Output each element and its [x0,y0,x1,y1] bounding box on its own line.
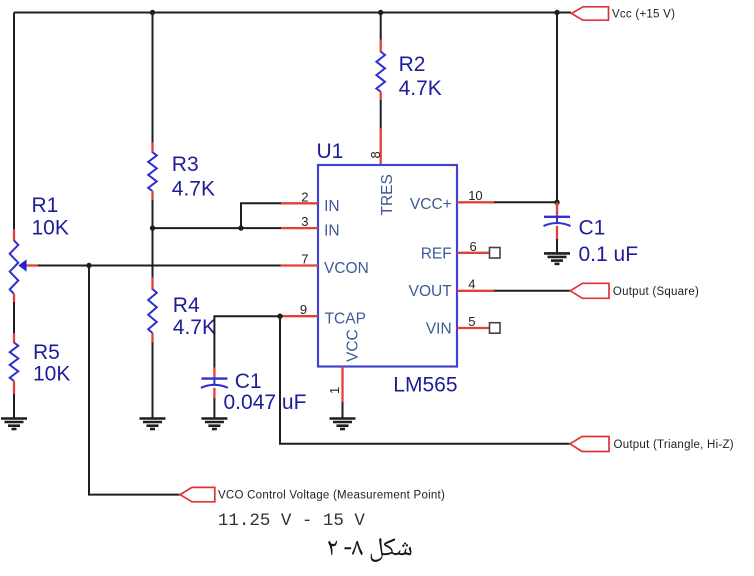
svg-text:10K: 10K [33,363,70,386]
ground (R4) [140,419,166,430]
svg-text:6: 6 [470,239,477,254]
svg-text:4.7K: 4.7K [399,77,442,100]
wire R3 branch from top [152,13,154,144]
no-connect square pin 6 [490,248,501,259]
pin number 3 [301,214,308,229]
label R1 10K [32,194,69,239]
pin 2 wire [241,203,318,228]
caption (Farsi) shekl 8-2 [328,538,411,562]
wire R2 to pin 8 [380,100,382,129]
wire right vertical [556,13,558,203]
ground (R5) [1,419,27,430]
pin 6 REF stub [457,252,491,254]
pin number 5 [468,314,475,329]
svg-text:LM565: LM565 [393,373,457,396]
svg-text:TRES: TRES [379,174,396,215]
svg-text:5: 5 [468,314,475,329]
resistor R1 (potentiometer) [10,229,39,303]
ground (C2) [201,419,227,430]
IC U1 LM565 [317,140,458,396]
capacitor C1 0.1uF [544,202,571,253]
svg-text:VCON: VCON [324,260,369,277]
node VCO Control Voltage flag [180,487,445,501]
label R2 4.7K [399,53,442,100]
pin number 7 [301,252,308,267]
pin 4 VOUT wire [457,290,570,292]
node Output (Square) flag [570,283,699,298]
pin number 8 [368,151,383,158]
pin number 2 [301,189,308,204]
label R3 4.7K [172,153,215,201]
label C1 0.047 uF [224,370,307,414]
wire R4 to ground [152,343,154,419]
wire left branch upper [13,13,15,232]
svg-text:2: 2 [301,189,308,204]
svg-text:11.25 V - 15 V: 11.25 V - 15 V [218,511,366,531]
svg-text:10: 10 [468,188,482,203]
pin number 4 [468,277,475,292]
wire R3 to junction [152,200,154,228]
svg-text:U1: U1 [317,140,344,163]
wire R5 to ground [13,394,15,419]
label R5 10K [33,341,70,386]
svg-text:Output (Square): Output (Square) [613,286,699,298]
svg-text:R3: R3 [172,153,199,176]
pin 7 VCON wire [38,265,318,267]
svg-text:IN: IN [324,198,340,215]
svg-text:TCAP: TCAP [325,311,366,328]
svg-text:Output (Triangle, Hi-Z): Output (Triangle, Hi-Z) [614,439,734,451]
pin number 1 [327,387,342,394]
svg-text:R5: R5 [33,341,60,364]
svg-text:R2: R2 [399,53,426,76]
svg-text:0.047 uF: 0.047 uF [224,391,307,414]
label C1 0.1 uF [579,217,639,267]
no-connect square pin 5 [490,323,501,334]
wire between R1 and R5 [13,302,15,334]
pin number 9 [300,302,307,317]
resistor R2 [376,39,385,101]
pin 3 wire [153,227,319,229]
wire R2 branch from top [380,13,382,41]
svg-text:4: 4 [468,277,475,292]
resistor R5 [10,333,19,395]
pin number 10 [468,188,482,203]
svg-text:VCC+: VCC+ [410,196,452,213]
svg-text:IN: IN [324,223,340,240]
svg-text:R4: R4 [173,294,200,317]
svg-text:1: 1 [327,387,342,394]
junction TCAP / triangle out [277,314,282,319]
junction R3/IN3 [150,225,155,230]
svg-text:4.7K: 4.7K [172,178,215,201]
junction top right [554,10,559,15]
wire R3/R4 vertical through VCON [152,228,154,278]
junction pin2/pin3 [238,225,243,230]
svg-text:VOUT: VOUT [409,283,453,300]
svg-text:VCC: VCC [345,329,362,362]
junction top-left (R3 branch) [150,10,155,15]
svg-text:0.1 uF: 0.1 uF [579,243,639,266]
pin 8 stub [380,128,382,165]
node Output (Triangle, Hi-Z) flag [570,437,734,452]
pin number 6 [470,239,477,254]
svg-text:4.7K: 4.7K [173,316,216,339]
svg-text:C1: C1 [579,217,606,240]
svg-text:REF: REF [421,245,452,262]
junction VCON / VCO control [86,263,91,268]
pin 1 VCC stub [341,367,343,419]
ground (C1) [544,253,570,264]
ground (pin 1) [330,419,356,430]
wire VCO control [89,266,180,495]
pin 5 VIN stub [457,327,491,329]
svg-text:7: 7 [301,252,308,267]
junction pin10 / C1 [554,200,559,205]
capacitor C1 0.047uF [201,367,228,418]
svg-text:3: 3 [301,214,308,229]
wire triangle output [280,316,570,444]
svg-text:VCO Control Voltage (Measureme: VCO Control Voltage (Measurement Point) [218,490,445,502]
svg-text:R1: R1 [32,194,59,217]
wire top rail [14,12,571,14]
resistor R4 [148,277,157,343]
svg-text:8: 8 [368,151,383,158]
pin 9 TCAP wire [214,316,318,368]
label R4 4.7K [173,294,216,339]
pin 10 wire [457,201,557,203]
svg-text:C1: C1 [235,370,262,393]
value note 11.25 V - 15 V [218,511,366,531]
svg-text:9: 9 [300,302,307,317]
svg-text:VIN: VIN [426,321,452,338]
junction top R2 branch [378,10,383,15]
svg-text:Vcc (+15 V): Vcc (+15 V) [612,9,675,21]
node Vcc flag [572,7,676,21]
resistor R3 [148,143,157,202]
svg-text:10K: 10K [32,216,69,239]
